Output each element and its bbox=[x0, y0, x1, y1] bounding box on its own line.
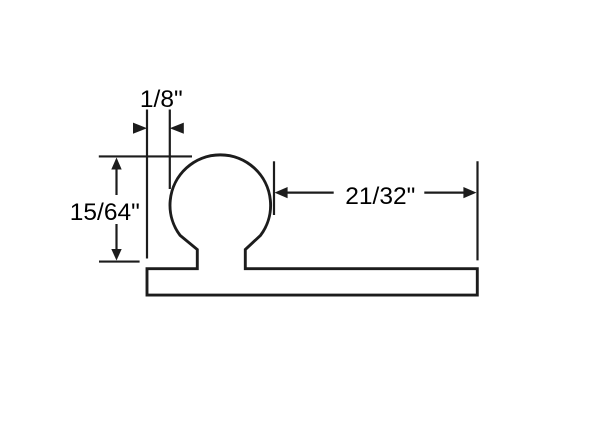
svg-text:15/64": 15/64" bbox=[70, 199, 140, 226]
svg-text:1/8": 1/8" bbox=[140, 86, 183, 113]
svg-text:21/32": 21/32" bbox=[345, 183, 415, 210]
